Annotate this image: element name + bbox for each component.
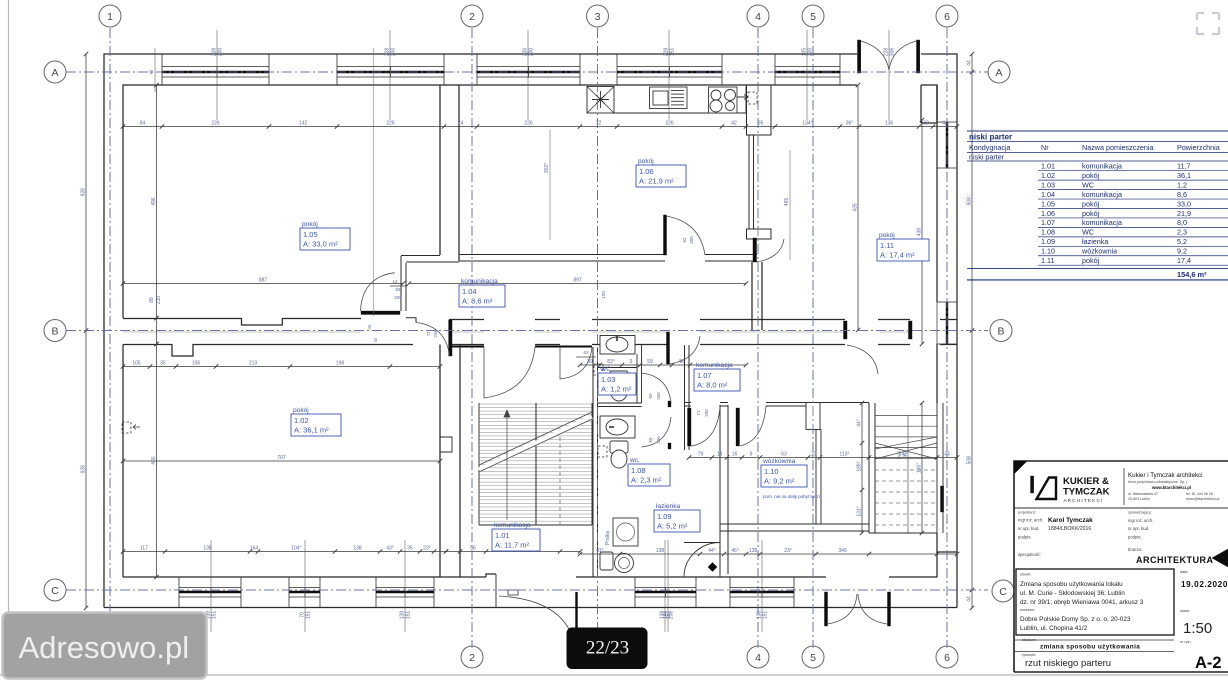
right wall door leaf near stairs: [941, 486, 944, 512]
svg-text:36°: 36°: [846, 121, 854, 127]
svg-text:KUKIER &: KUKIER &: [1063, 476, 1109, 487]
svg-text:1884/LBOKK/2016: 1884/LBOKK/2016: [1048, 526, 1091, 532]
svg-text:104°: 104°: [291, 546, 301, 552]
svg-text:349: 349: [838, 548, 847, 554]
svg-text:sprawdzający:: sprawdzający:: [1128, 511, 1152, 515]
main entrance door arcs: [861, 41, 889, 70]
svg-text:1.09: 1.09: [1041, 237, 1055, 246]
wc 1.03 sink basin: [606, 337, 628, 352]
title block logo divider: [1123, 468, 1125, 505]
svg-text:105: 105: [132, 361, 141, 367]
svg-text:71: 71: [696, 410, 701, 416]
svg-text:142: 142: [299, 121, 308, 127]
svg-text:35: 35: [407, 546, 413, 552]
door 1.07 to wozkownia leaf: [736, 408, 740, 446]
svg-text:302°: 302°: [544, 163, 550, 173]
bottom entrance jamb left: [495, 574, 497, 608]
svg-text:62: 62: [583, 350, 589, 355]
svg-text:Nr: Nr: [1041, 143, 1049, 152]
entrance vestibule wall stub: [921, 85, 937, 123]
door 1.04 to 1.06 arc: [664, 215, 667, 255]
svg-text:200: 200: [218, 48, 224, 57]
svg-text:60: 60: [648, 437, 653, 443]
right stair treads lower dashed: [875, 469, 937, 471]
svg-text:łazienka: łazienka: [656, 503, 681, 510]
svg-text:42: 42: [731, 121, 737, 127]
top outside window dims: [216, 30, 218, 120]
door to room 1.11 arc: [757, 239, 785, 262]
svg-text:pokój: pokój: [1082, 199, 1100, 208]
bottom window dims: [210, 540, 212, 632]
washing machine: [613, 518, 638, 546]
svg-text:Kukier i Tymczak architekci: Kukier i Tymczak architekci: [1128, 472, 1203, 479]
svg-text:Pralka: Pralka: [605, 531, 611, 545]
svg-text:łazienka: łazienka: [1082, 237, 1108, 246]
svg-text:928: 928: [81, 465, 87, 474]
svg-text:Adresowo.pl: Adresowo.pl: [19, 630, 190, 665]
svg-text:niski parter: niski parter: [969, 133, 1012, 142]
svg-text:A: 1,2 m²: A: 1,2 m²: [601, 385, 632, 394]
fullscreen icon top right: [1197, 13, 1219, 34]
left vertical dim chain: [156, 85, 158, 318]
svg-text:188°: 188°: [857, 461, 863, 471]
grid bubble 6 top: [936, 5, 958, 27]
central staircase treads: [479, 403, 592, 405]
svg-text:Karol Tymczak: Karol Tymczak: [1048, 517, 1093, 524]
svg-text:WC: WC: [600, 366, 611, 373]
svg-text:9,2: 9,2: [1177, 247, 1187, 256]
svg-text:B: B: [51, 325, 58, 337]
door lobby to wc 1.03: [668, 401, 671, 407]
svg-text:6: 6: [944, 11, 950, 23]
svg-text:pokój: pokój: [1082, 171, 1100, 180]
svg-text:pokój: pokój: [1082, 256, 1100, 265]
svg-text:1,2: 1,2: [1177, 180, 1187, 189]
title block frame: [1014, 461, 1228, 672]
central staircase center rail: [535, 403, 537, 525]
svg-text:95: 95: [758, 121, 764, 127]
svg-text:72: 72: [426, 331, 431, 336]
door corridor 1.04 to room 1.05 leaf: [361, 311, 400, 315]
svg-text:komunikacja: komunikacja: [461, 278, 498, 285]
top wall window jambs: [161, 54, 163, 85]
lazienka toilet: [600, 552, 613, 570]
top wall glazing bands: [162, 66, 269, 68]
page badge 22/23: [567, 628, 647, 669]
svg-text:rysunek:: rysunek:: [1022, 653, 1036, 657]
svg-text:1.06: 1.06: [1041, 209, 1055, 218]
svg-text:1.03: 1.03: [601, 375, 616, 384]
svg-text:A-2: A-2: [1195, 654, 1222, 672]
grid overlay lines: [109, 28, 111, 648]
svg-text:data:: data:: [1180, 570, 1188, 574]
grid bubble 1 top: [99, 5, 121, 27]
svg-text:8,0: 8,0: [1177, 218, 1187, 227]
svg-text:pokój: pokój: [293, 407, 309, 414]
svg-text:projektant:: projektant:: [1018, 511, 1036, 515]
svg-text:Dobre Polskie Domy Sp. z o. o.: Dobre Polskie Domy Sp. z o. o. 20-023: [1020, 616, 1131, 623]
svg-text:59: 59: [647, 359, 653, 365]
svg-text:1.05: 1.05: [303, 230, 318, 239]
svg-text:48: 48: [678, 359, 684, 365]
mid dim chain 887: [123, 283, 403, 285]
svg-text:8,6: 8,6: [1177, 190, 1187, 199]
kitchen counter: [614, 87, 746, 114]
svg-text:20-803 Lublin: 20-803 Lublin: [1128, 497, 1150, 501]
svg-text:36,1: 36,1: [1177, 171, 1191, 180]
svg-text:5: 5: [810, 11, 816, 23]
kitchen stove: [709, 87, 738, 113]
svg-text:5: 5: [810, 652, 816, 664]
svg-text:podpis:: podpis:: [1128, 535, 1142, 540]
B wall bottom edge: [123, 345, 413, 357]
svg-text:Kondygnacja: Kondygnacja: [969, 143, 1011, 152]
wc 1.03 toilet: [610, 371, 628, 384]
svg-text:Nazwa pomieszczenia: Nazwa pomieszczenia: [1082, 143, 1154, 152]
B wall door lintels: [449, 346, 484, 348]
grid bubble A left: [44, 61, 66, 83]
door 1.07 to lazienka arc: [691, 407, 720, 446]
svg-text:6: 6: [944, 652, 950, 664]
main entrance double door leaf right: [917, 40, 920, 73]
svg-text:niski parter: niski parter: [969, 153, 1005, 162]
svg-text:1.11: 1.11: [880, 241, 894, 250]
grid bubble 4 top: [747, 5, 769, 27]
svg-text:1.02: 1.02: [294, 416, 309, 425]
wc 1.08 sink counter: [600, 416, 635, 438]
exterior top wall inner line: [123, 85, 857, 318]
wall block at partition south end: [747, 229, 772, 239]
svg-text:43°: 43°: [386, 546, 394, 552]
svg-text:1.01: 1.01: [495, 531, 510, 540]
room 1.11 vertical dim: [857, 85, 859, 330]
svg-text:1.02: 1.02: [1041, 171, 1055, 180]
svg-text:206: 206: [656, 436, 661, 444]
bottom double door jambs: [825, 592, 828, 626]
svg-text:12: 12: [392, 279, 398, 284]
door 1.07 to lazienka leaf: [688, 408, 692, 446]
bottom entrance threshold: [508, 590, 518, 595]
main entrance double door leaf left: [858, 40, 861, 73]
adresowo watermark box: [3, 613, 207, 679]
svg-text:nr upr. bud.: nr upr. bud.: [1128, 526, 1149, 531]
door corridor 1.04 to room 1.05 arc: [361, 273, 395, 311]
svg-text:obiekt:: obiekt:: [1020, 573, 1031, 577]
svg-text:A: 9,2 m²: A: 9,2 m²: [764, 477, 795, 486]
svg-text:wózkownia: wózkownia: [762, 458, 796, 465]
svg-text:206: 206: [394, 295, 402, 300]
svg-text:1.10: 1.10: [1041, 247, 1055, 256]
svg-text:komunikacja: komunikacja: [1082, 190, 1122, 199]
svg-text:1.06: 1.06: [639, 167, 654, 176]
chain room 1.02 mid 707: [123, 460, 440, 462]
svg-text:44: 44: [967, 60, 973, 66]
svg-text:9: 9: [630, 359, 633, 365]
svg-text:74: 74: [458, 121, 464, 127]
svg-text:1.05: 1.05: [1041, 199, 1055, 208]
svg-text:40: 40: [373, 337, 378, 342]
grid axis 5 vertical: [812, 28, 814, 648]
svg-text:A: 36,1 m²: A: 36,1 m²: [294, 426, 329, 435]
svg-text:9: 9: [750, 452, 753, 458]
svg-text:1.08: 1.08: [631, 466, 646, 475]
svg-text:465: 465: [784, 198, 790, 207]
svg-text:komunikacja: komunikacja: [1082, 218, 1122, 227]
grid axis 4 vertical: [757, 28, 759, 648]
door to room 1.11 leaf: [753, 238, 757, 262]
svg-text:226: 226: [665, 121, 674, 127]
svg-text:496: 496: [151, 197, 157, 206]
svg-text:inwestor:: inwestor:: [1020, 608, 1035, 612]
right edge triangle: [1212, 549, 1228, 567]
svg-text:35: 35: [160, 361, 166, 367]
svg-text:A: 8,6 m²: A: 8,6 m²: [462, 297, 493, 306]
svg-text:106: 106: [192, 361, 201, 367]
svg-text:82: 82: [395, 287, 401, 292]
svg-text:198: 198: [336, 361, 345, 367]
wc 1.08 toilet: [610, 441, 628, 453]
right stair bottom: [869, 532, 937, 534]
B wall top edge: [123, 319, 361, 326]
svg-text:1.01: 1.01: [1041, 162, 1055, 171]
outer left vertical dim chain: [85, 54, 87, 608]
exterior top wall outer line: [104, 54, 857, 608]
svg-text:151: 151: [670, 48, 676, 57]
svg-text:887: 887: [259, 278, 268, 284]
svg-text:138: 138: [749, 548, 758, 554]
svg-text:ul. M. Curie - Skłodowskiej 36: ul. M. Curie - Skłodowskiej 36; Lublin: [1020, 590, 1125, 597]
svg-text:1.09: 1.09: [657, 512, 672, 521]
svg-text:5,2: 5,2: [1177, 237, 1187, 246]
svg-text:nr upr. bud.: nr upr. bud.: [1018, 526, 1039, 531]
svg-text:A: 2,3 m²: A: 2,3 m²: [631, 476, 662, 485]
svg-text:2: 2: [469, 11, 475, 23]
svg-text:4: 4: [755, 11, 761, 23]
small dim 46 top left: [154, 48, 156, 92]
svg-text:62: 62: [682, 237, 687, 243]
svg-text:biuro projektowo-urbanistyczne: biuro projektowo-urbanistyczne, Sp. j.: [1128, 480, 1188, 484]
svg-text:306: 306: [890, 48, 896, 57]
svg-text:1.04: 1.04: [462, 287, 477, 296]
bottom entrance door arc: [499, 596, 576, 652]
bath lobby east wall: [685, 345, 690, 450]
svg-text:151: 151: [666, 611, 672, 620]
wozkownia top wall: [685, 402, 870, 404]
svg-text:1.08: 1.08: [1041, 228, 1055, 237]
svg-text:1.03: 1.03: [1041, 180, 1055, 189]
svg-text:44°: 44°: [857, 419, 863, 427]
corridor 1.04 east wall: [752, 262, 762, 330]
svg-text:11,7: 11,7: [1177, 162, 1190, 171]
grid5 wall pier: [806, 403, 820, 430]
svg-text:wózkownia: wózkownia: [1081, 247, 1117, 256]
svg-text:A: 17,4 m²: A: 17,4 m²: [880, 251, 915, 260]
svg-text:ARCHITEKTURA: ARCHITEKTURA: [1136, 555, 1214, 565]
door arc 1.11 to corridor 1.07: [847, 345, 878, 374]
svg-text:komunikacja: komunikacja: [696, 362, 733, 369]
svg-text:151: 151: [763, 611, 769, 620]
svg-text:9x17: 9x17: [896, 450, 901, 459]
svg-text:A: A: [995, 67, 1002, 79]
door B-wall to stair hall 1.01: [484, 347, 535, 398]
grid axis 6 vertical: [946, 28, 948, 648]
svg-text:206: 206: [689, 236, 694, 244]
svg-text:897: 897: [573, 278, 582, 284]
grid bubble 5 bottom: [802, 646, 824, 668]
grid axis C horizontal: [66, 589, 988, 591]
svg-text:435: 435: [853, 203, 859, 212]
stadium line: [1014, 639, 1174, 641]
svg-text:Lublin, ul. Chopina 41/2: Lublin, ul. Chopina 41/2: [1020, 625, 1088, 632]
kitchen sink unit: [650, 87, 688, 109]
svg-text:131°: 131°: [857, 506, 863, 516]
svg-text:39: 39: [587, 359, 593, 365]
svg-text:13: 13: [717, 452, 723, 458]
svg-text:46°: 46°: [731, 548, 739, 554]
bottom double door arcs: [827, 594, 857, 624]
svg-text:17,4: 17,4: [1177, 256, 1191, 265]
svg-text:138: 138: [656, 548, 665, 554]
grid axis 3 vertical: [597, 28, 599, 648]
right stair dashed sides: [907, 415, 909, 533]
logo mark bar: [1031, 476, 1034, 493]
svg-text:16: 16: [732, 452, 738, 458]
svg-text:pokój: pokój: [302, 221, 318, 228]
svg-text:2,3: 2,3: [1177, 228, 1187, 237]
room 1.02 east wall: [440, 345, 460, 578]
svg-text:200: 200: [391, 48, 397, 57]
svg-text:1.10: 1.10: [764, 467, 779, 476]
grid bubble 3 bottom: [587, 646, 609, 668]
svg-text:pokój: pokój: [879, 232, 895, 239]
bottom entrance door leaf: [575, 592, 577, 641]
svg-text:213: 213: [249, 361, 258, 367]
svg-text:C: C: [51, 585, 59, 597]
svg-text:22/23: 22/23: [586, 638, 629, 659]
svg-text:117: 117: [140, 546, 148, 552]
svg-text:skala:: skala:: [1180, 609, 1190, 613]
svg-text:44: 44: [967, 596, 973, 602]
exterior bottom wall lines: [104, 607, 957, 609]
svg-text:B: B: [997, 325, 1004, 337]
svg-text:pokój: pokój: [1082, 209, 1100, 218]
svg-text:83°: 83°: [607, 359, 615, 365]
outer right vertical dim chain: [971, 54, 973, 608]
title block divider line: [1014, 507, 1228, 509]
grid bubble 2 bottom: [461, 646, 483, 668]
bath cluster west wall: [593, 347, 598, 577]
svg-text:3: 3: [595, 11, 601, 23]
kitchen shaft box: [587, 87, 614, 114]
svg-text:30: 30: [902, 452, 907, 457]
svg-text:mgr inż. arch.: mgr inż. arch.: [1128, 518, 1153, 523]
corridor 1.04 west wall: [401, 256, 406, 311]
svg-text:A: 33,0 m²: A: 33,0 m²: [303, 240, 338, 249]
central staircase side walls: [478, 403, 480, 525]
svg-text:A: 8,0 m²: A: 8,0 m²: [697, 381, 728, 390]
shower enclosure: [684, 543, 720, 578]
bottom wall window jambs: [178, 578, 180, 609]
central staircase walk line arrow: [506, 410, 508, 520]
right wall inner line: [936, 85, 938, 403]
svg-text:226: 226: [524, 121, 533, 127]
svg-text:72: 72: [596, 121, 602, 127]
door leafs in B wall below 1.11: [844, 321, 848, 339]
kitchen arrow: [737, 95, 748, 100]
svg-text:ul. Warszawska 47: ul. Warszawska 47: [1128, 492, 1158, 496]
right stair winder X: [875, 443, 937, 459]
svg-text:1.07: 1.07: [697, 371, 712, 380]
svg-text:A R C H I T E K C I: A R C H I T E K C I: [1064, 498, 1103, 503]
svg-text:komunikacja: komunikacja: [1082, 162, 1122, 171]
svg-text:154,6 m²: 154,6 m²: [1177, 270, 1207, 279]
svg-text:podpis:: podpis:: [1018, 535, 1032, 540]
right wall windows: [936, 122, 938, 168]
chain room 1.02 top: [123, 366, 440, 368]
svg-text:tel. 81 444 06 26: tel. 81 444 06 26: [1186, 492, 1213, 496]
svg-text:56: 56: [470, 546, 476, 552]
svg-text:A: A: [51, 67, 58, 79]
svg-text:60: 60: [648, 393, 653, 399]
svg-text:79: 79: [698, 452, 704, 458]
grid bubble 4 bottom: [747, 646, 769, 668]
svg-text:151: 151: [212, 611, 218, 620]
bottom wall glazing bands: [179, 587, 241, 589]
svg-text:120: 120: [601, 291, 606, 299]
dim extension line x373: [373, 48, 375, 316]
grid axis 2 vertical: [471, 28, 473, 648]
wozkownia bottom wall: [720, 524, 869, 531]
svg-text:166°: 166°: [917, 463, 923, 473]
grid bubble 2 top: [461, 5, 483, 27]
chain below B wall right: [580, 364, 746, 366]
svg-text:226: 226: [211, 121, 220, 127]
wozkownia west wall: [720, 405, 728, 574]
right vertical dims: [861, 403, 863, 533]
wc 1.03 sink counter: [600, 336, 635, 355]
logo mark triangle: [1037, 478, 1057, 500]
grid bubble 3 top: [587, 5, 609, 27]
grid bubble B right: [990, 320, 1012, 342]
svg-text:1:50: 1:50: [1183, 620, 1212, 637]
svg-text:508: 508: [967, 456, 973, 465]
svg-text:TYMCZAK: TYMCZAK: [1063, 487, 1110, 498]
svg-text:138: 138: [203, 546, 212, 552]
wall pier above 1.06/1.11 partition: [747, 85, 772, 135]
svg-text:138: 138: [353, 546, 362, 552]
svg-text:164: 164: [250, 546, 259, 552]
sheet left edge line: [8, 0, 10, 612]
door lobby to wc 1.08: [668, 443, 671, 449]
svg-text:mgr inż. arch.: mgr inż. arch.: [1018, 518, 1043, 523]
grid bubble B left: [44, 320, 66, 342]
svg-text:200: 200: [529, 48, 535, 57]
corridor 1.04 top wall: [401, 255, 440, 257]
svg-text:44°: 44°: [708, 548, 716, 554]
svg-text:pom. nie na stały pobyt ludzi: pom. nie na stały pobyt ludzi: [763, 494, 820, 499]
right stair west wall: [869, 403, 875, 533]
dim 62 above lobby door: [576, 356, 596, 358]
svg-text:63: 63: [781, 452, 787, 458]
B wall infill shading: [123, 331, 360, 333]
svg-text:206: 206: [656, 392, 661, 400]
svg-text:wc,: wc,: [629, 457, 640, 464]
bath/wozkownia chain: [689, 457, 957, 459]
svg-text:www.ktarchitekci.pl: www.ktarchitekci.pl: [1151, 485, 1191, 490]
svg-text:Zmiana sposobu użytkowania lok: Zmiana sposobu użytkowania lokalu: [1020, 581, 1123, 588]
room table: [967, 130, 1228, 132]
svg-text:23°: 23°: [784, 548, 792, 554]
